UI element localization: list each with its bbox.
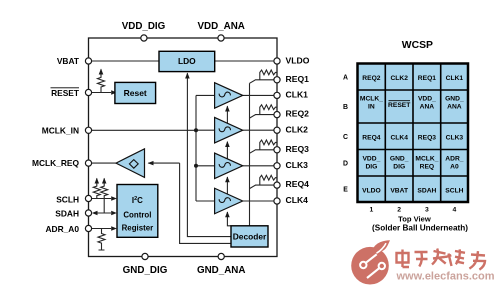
svg-text:CLK1: CLK1 — [446, 75, 464, 82]
svg-text:Register: Register — [122, 224, 154, 233]
svg-text:C: C — [343, 134, 348, 141]
svg-text:ANA: ANA — [447, 104, 462, 111]
svg-text:I2C: I2C — [132, 196, 143, 205]
svg-text:CLK4: CLK4 — [286, 195, 309, 205]
svg-text:E: E — [343, 187, 348, 194]
svg-text:4: 4 — [453, 207, 457, 214]
svg-text:CLK2: CLK2 — [390, 75, 408, 82]
svg-text:CLK2: CLK2 — [286, 124, 309, 134]
svg-text:VBAT: VBAT — [390, 187, 409, 194]
svg-text:RESET: RESET — [388, 102, 411, 109]
svg-text:VDD_DIG: VDD_DIG — [122, 21, 166, 32]
svg-text:B: B — [343, 104, 348, 111]
svg-text:CLK4: CLK4 — [390, 135, 408, 142]
svg-text:SDAH: SDAH — [417, 187, 436, 194]
svg-text:MCLK_: MCLK_ — [360, 96, 383, 103]
svg-text:ANA: ANA — [420, 104, 435, 111]
svg-text:WCSP: WCSP — [402, 40, 433, 51]
svg-text:A0: A0 — [450, 163, 459, 170]
svg-text:REQ: REQ — [420, 163, 435, 170]
svg-text:MCLK_IN: MCLK_IN — [42, 125, 79, 135]
svg-text:GND_: GND_ — [390, 155, 409, 162]
svg-text:REQ1: REQ1 — [286, 74, 310, 84]
svg-text:REQ3: REQ3 — [286, 144, 310, 154]
svg-text:REQ3: REQ3 — [418, 135, 436, 142]
svg-text:REQ1: REQ1 — [418, 75, 436, 82]
svg-text:REQ4: REQ4 — [286, 179, 310, 189]
svg-text:3: 3 — [425, 207, 429, 214]
svg-text:D: D — [343, 160, 348, 167]
svg-text:RESET: RESET — [51, 88, 80, 98]
svg-text:Top View: Top View — [398, 214, 431, 223]
svg-text:SCLH: SCLH — [56, 194, 79, 204]
svg-text:DIG: DIG — [393, 163, 405, 170]
svg-text:ADR_A0: ADR_A0 — [45, 224, 79, 234]
svg-text:1: 1 — [370, 207, 374, 214]
svg-text:Control: Control — [123, 211, 151, 220]
svg-text:LDO: LDO — [178, 56, 196, 66]
svg-text:VDD_: VDD_ — [418, 96, 436, 103]
svg-text:www.elecfans.com: www.elecfans.com — [396, 271, 495, 283]
svg-text:DIG: DIG — [365, 163, 377, 170]
svg-text:IN: IN — [368, 104, 375, 111]
svg-text:REQ2: REQ2 — [286, 109, 310, 119]
svg-text:REQ2: REQ2 — [362, 75, 380, 82]
svg-text:GND_DIG: GND_DIG — [123, 265, 168, 276]
svg-text:SDAH: SDAH — [55, 208, 79, 218]
svg-text:CLK3: CLK3 — [286, 160, 309, 170]
svg-text:VLDO: VLDO — [286, 55, 310, 65]
svg-text:2: 2 — [397, 207, 401, 214]
svg-text:VDD_ANA: VDD_ANA — [198, 21, 245, 32]
svg-text:Decoder: Decoder — [233, 232, 267, 242]
svg-text:VLDO: VLDO — [362, 187, 381, 194]
svg-text:MCLK_: MCLK_ — [415, 155, 438, 162]
svg-text:VDD_: VDD_ — [362, 155, 380, 162]
svg-text:CLK1: CLK1 — [286, 90, 309, 100]
svg-text:ADR_: ADR_ — [445, 155, 463, 162]
svg-text:SCLH: SCLH — [445, 187, 463, 194]
svg-text:(Solder Ball Underneath): (Solder Ball Underneath) — [372, 223, 468, 232]
svg-text:GND_: GND_ — [445, 96, 464, 103]
svg-text:MCLK_REQ: MCLK_REQ — [32, 158, 79, 168]
svg-text:A: A — [343, 74, 348, 81]
svg-text:Reset: Reset — [124, 88, 147, 98]
svg-text:VBAT: VBAT — [57, 56, 80, 66]
svg-text:REQ4: REQ4 — [362, 135, 380, 142]
svg-text:CLK3: CLK3 — [446, 135, 464, 142]
svg-text:GND_ANA: GND_ANA — [197, 265, 245, 276]
